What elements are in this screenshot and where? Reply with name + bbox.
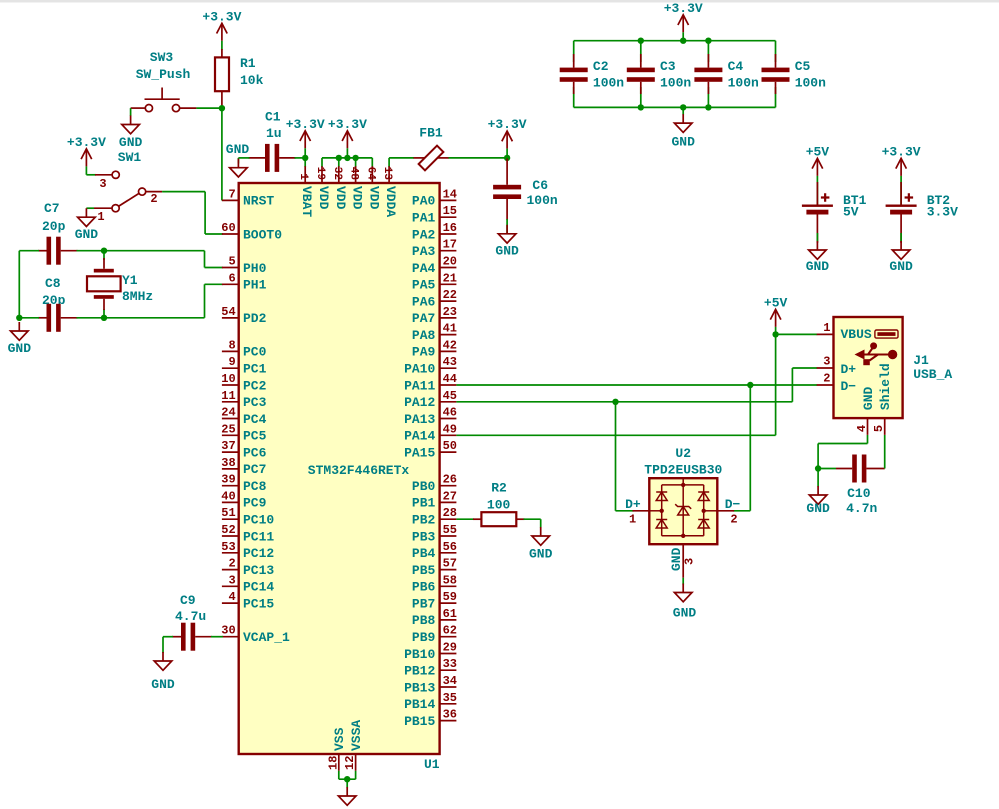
wire PA12 riser: [791, 368, 793, 402]
svg-text:3: 3: [99, 177, 106, 191]
wire PH0 wire h2: [205, 267, 223, 269]
pin 38 PC7 (U1 left): [221, 456, 266, 477]
ground GND at C1: [230, 159, 248, 177]
svg-text:PC0: PC0: [243, 345, 267, 360]
node junction VSS/VSSA: [344, 776, 350, 782]
wire R2 right wire: [524, 518, 541, 520]
power symbol PWR +3.3V at BT2: [896, 158, 907, 176]
pin 52 PC11 (U1 left): [221, 523, 274, 544]
pin 4 PC15 (U1 left): [222, 590, 275, 611]
U2 internal node right: [702, 509, 706, 513]
svg-text:38: 38: [221, 456, 235, 470]
crystal Y1: [87, 258, 121, 310]
svg-text:100n: 100n: [660, 76, 691, 91]
pin 60 BOOT0 (U1 left): [221, 221, 282, 242]
diode D-left-lower (U2): [656, 519, 667, 521]
pin 62 PB9 (U1 right): [412, 624, 457, 645]
wire VSSA down: [355, 771, 357, 779]
pin 3 D+ (J1): [817, 354, 857, 377]
wire C4 bottom drop: [707, 87, 709, 107]
wire C1 right wire: [295, 157, 306, 159]
svg-text:C4: C4: [728, 59, 744, 74]
pin 50 PA15 (U1 right): [404, 439, 457, 460]
pin 17 PA3 (U1 right): [412, 238, 457, 259]
svg-text:15: 15: [443, 204, 457, 218]
pin 34 PB13 (U1 right): [404, 674, 457, 695]
svg-text:PB0: PB0: [412, 479, 436, 494]
wire +3.3V to R1: [221, 41, 223, 50]
svg-text:50: 50: [443, 439, 457, 453]
pin 1 VBAT (U1 top): [297, 166, 314, 217]
pin 7 NRST (U1 left): [222, 187, 275, 208]
wire C2 bottom drop: [573, 87, 575, 107]
power symbol PWR01 +3.3V above R1: [217, 23, 228, 41]
svg-text:BOOT0: BOOT0: [243, 227, 282, 242]
svg-text:PC13: PC13: [243, 563, 274, 578]
wire PA12 wire h: [456, 401, 792, 403]
svg-text:GND: GND: [861, 386, 876, 410]
pin 28 PB2 (U1 right): [412, 506, 457, 527]
pin 22 PA6 (U1 right): [412, 288, 457, 309]
wire U2 pin3 wire: [682, 578, 684, 585]
svg-text:D+: D+: [841, 362, 857, 377]
svg-text:NRST: NRST: [243, 194, 274, 209]
svg-text:R1: R1: [240, 56, 256, 71]
node junction top rail x=640.8: [638, 38, 644, 44]
svg-text:11: 11: [221, 389, 235, 403]
pin 35 PB14 (U1 right): [404, 691, 457, 712]
capacitor C4: [694, 54, 722, 94]
wire SW1 pin1 to GND: [86, 207, 94, 209]
svg-text:+3.3V: +3.3V: [202, 9, 241, 24]
pin 11 PC3 (U1 left): [221, 389, 266, 410]
svg-text:100n: 100n: [593, 76, 624, 91]
svg-text:GND: GND: [151, 677, 175, 692]
pin 16 PA2 (U1 right): [412, 221, 457, 242]
svg-text:5: 5: [228, 255, 235, 269]
USB receptacle icon (J1): [875, 330, 898, 338]
svg-text:26: 26: [443, 473, 457, 487]
node junction R1/SW3/NRST: [219, 105, 225, 111]
pin 1 D+ (U2): [625, 497, 649, 527]
pin 4 GND (J1): [855, 386, 876, 434]
pin 39 PC8 (U1 left): [221, 473, 266, 494]
wire VDDA to FB1: [389, 157, 414, 159]
wire +3.3V to SW1 pin3 corner v: [85, 166, 87, 174]
svg-text:22: 22: [443, 288, 457, 302]
svg-text:PB12: PB12: [404, 664, 435, 679]
pin 21 PA5 (U1 right): [412, 271, 457, 292]
svg-text:VDD: VDD: [366, 186, 381, 210]
svg-text:PB10: PB10: [404, 647, 435, 662]
wire C7 right wire: [77, 250, 105, 252]
svg-text:PC15: PC15: [243, 596, 274, 611]
pin 56 PB4 (U1 right): [412, 540, 457, 561]
pin 9 PC1 (U1 left): [222, 355, 267, 376]
node junction bottom rail x=708.4: [705, 104, 711, 110]
svg-text:2: 2: [730, 513, 737, 527]
wire D+ wire: [792, 367, 817, 369]
svg-text:64: 64: [364, 167, 376, 181]
svg-text:GND: GND: [671, 134, 695, 149]
node junction PA12/U2: [612, 399, 618, 405]
node junction bottom rail GND: [680, 104, 686, 110]
wire J1 pin4 drop: [817, 444, 819, 469]
wire SW1 pin2 wire v: [204, 192, 206, 234]
capacitor C8: [38, 304, 78, 332]
pin 40 PC9 (U1 left): [221, 489, 266, 510]
pin 54 PD2 (U1 left): [221, 305, 266, 326]
svg-text:PC5: PC5: [243, 429, 267, 444]
svg-text:PH0: PH0: [243, 261, 267, 276]
wire U2 pin2 riser: [749, 385, 751, 511]
wire BT2 bottom wire: [900, 233, 902, 242]
resistor R1: [215, 49, 229, 108]
wire U2 pin1 riser: [615, 402, 617, 511]
pin 48 VDD (U1 top): [348, 166, 365, 209]
wire C10 gnd drop: [817, 469, 819, 487]
svg-text:PA9: PA9: [412, 345, 436, 360]
pin 37 PC6 (U1 left): [221, 439, 266, 460]
svg-text:1: 1: [297, 173, 309, 180]
pin 43 PA10 (U1 right): [404, 355, 457, 376]
svg-text:PC11: PC11: [243, 529, 274, 544]
svg-text:+3.3V: +3.3V: [286, 117, 325, 132]
svg-text:PB5: PB5: [412, 563, 436, 578]
svg-text:VBUS: VBUS: [841, 327, 872, 342]
svg-text:PC2: PC2: [243, 378, 267, 393]
pin 42 PA9 (U1 right): [412, 338, 457, 359]
pin 1 VBUS (J1): [817, 321, 872, 342]
svg-text:C6: C6: [532, 178, 548, 193]
wire VDDA riser: [388, 158, 390, 167]
svg-text:PB8: PB8: [412, 613, 436, 628]
sheet border top edge: [0, 0, 999, 3]
svg-text:PC8: PC8: [243, 479, 267, 494]
wire J1 pin4 down: [867, 435, 869, 444]
ground GND at C6: [498, 225, 516, 243]
svg-text:53: 53: [221, 540, 235, 554]
pin 13 VDDA (U1 top): [381, 166, 398, 217]
svg-text:FB1: FB1: [419, 126, 443, 141]
wire +5V to VBUS: [775, 327, 777, 335]
svg-text:33: 33: [443, 657, 457, 671]
power symbol PWR03 +3.3V at VBAT: [300, 131, 311, 149]
svg-text:PA12: PA12: [404, 395, 435, 410]
wire C3 bottom drop: [640, 87, 642, 107]
pin 29 PB10 (U1 right): [404, 641, 457, 662]
ground GND at C10: [809, 486, 827, 504]
svg-text:D+: D+: [625, 497, 641, 512]
ground GND at crystal: [11, 322, 29, 340]
pin 5 Shield (J1): [872, 363, 893, 435]
svg-text:48: 48: [348, 167, 360, 181]
ground GND at R2: [532, 527, 550, 545]
pin 58 PB6 (U1 right): [412, 573, 457, 594]
node junction Y1 top: [101, 248, 107, 254]
node junction VDD48: [352, 155, 358, 161]
svg-text:60: 60: [221, 221, 235, 235]
svg-text:VDDA: VDDA: [383, 186, 398, 217]
U2 internal top rail: [662, 484, 704, 486]
svg-text:36: 36: [443, 708, 457, 722]
wire C6 to GND: [506, 219, 508, 234]
svg-text:PC14: PC14: [243, 580, 274, 595]
svg-text:39: 39: [221, 473, 235, 487]
svg-text:PB9: PB9: [412, 630, 436, 645]
ground GND at U2: [674, 584, 692, 602]
svg-text:40: 40: [221, 489, 235, 503]
capacitor C5: [762, 54, 790, 94]
svg-text:20p: 20p: [42, 293, 66, 308]
svg-text:54: 54: [221, 305, 235, 319]
svg-text:43: 43: [443, 355, 457, 369]
svg-text:GND: GND: [806, 501, 830, 516]
wire C9 corner down: [162, 637, 164, 653]
svg-text:VDD: VDD: [316, 186, 331, 210]
svg-text:VDD: VDD: [333, 186, 348, 210]
capacitor C6: [493, 159, 521, 221]
pin 2 PC13 (U1 left): [222, 557, 275, 578]
svg-text:Y1: Y1: [122, 273, 138, 288]
svg-text:PB4: PB4: [412, 546, 436, 561]
pin 12 VSSA (U1 bottom): [343, 720, 364, 771]
pin 51 PC10 (U1 left): [221, 506, 274, 527]
svg-text:4.7u: 4.7u: [175, 609, 206, 624]
svg-text:61: 61: [443, 607, 457, 621]
wire PH0 wire v: [204, 251, 206, 268]
svg-text:PA13: PA13: [404, 412, 435, 427]
svg-text:45: 45: [443, 389, 457, 403]
svg-text:GND: GND: [119, 135, 143, 150]
svg-text:GND: GND: [495, 243, 519, 258]
U2 internal bottom rail: [662, 535, 704, 537]
svg-text:23: 23: [443, 305, 457, 319]
svg-text:30: 30: [221, 624, 235, 638]
zener diode (U2): [675, 504, 691, 515]
wire PH1 wire h1: [104, 317, 205, 319]
wire Y1 top wire: [103, 251, 105, 260]
svg-text:PB6: PB6: [412, 580, 436, 595]
pin 14 PA0 (U1 right): [412, 187, 457, 208]
U2 internal node bottom: [681, 534, 685, 538]
U2 internal pin1 link: [649, 510, 661, 512]
svg-text:PB3: PB3: [412, 529, 436, 544]
svg-text:+5V: +5V: [806, 144, 830, 159]
svg-text:+3.3V: +3.3V: [664, 1, 703, 16]
U2 internal right branch: [703, 485, 705, 536]
node junction VDD32: [336, 155, 342, 161]
svg-text:PA10: PA10: [404, 362, 435, 377]
svg-text:PB7: PB7: [412, 596, 435, 611]
power symbol PWR06 +3.3V at cap bank: [678, 15, 689, 33]
wire PH0 wire h1: [104, 250, 205, 252]
pin 23 PA7 (U1 right): [412, 305, 457, 326]
svg-text:PC1: PC1: [243, 362, 267, 377]
node junction Y1 bottom: [101, 315, 107, 321]
pin 64 VDD (U1 top): [364, 166, 381, 209]
ferrite bead FB1: [414, 146, 449, 171]
node junction C8/GND: [16, 315, 22, 321]
wire +3.3V to top rail: [682, 32, 684, 40]
node junction +5V/VBUS: [772, 331, 778, 337]
svg-text:PC9: PC9: [243, 496, 267, 511]
svg-text:PC3: PC3: [243, 395, 267, 410]
wire bottom rail to GND: [682, 107, 684, 114]
pin 57 PB5 (U1 right): [412, 557, 457, 578]
U2 internal left branch: [661, 485, 663, 536]
svg-text:100n: 100n: [527, 193, 558, 208]
pin 6 PH1 (U1 left): [222, 271, 267, 292]
wire cap bank top rail: [574, 40, 776, 42]
ground GND at SW1: [78, 208, 96, 226]
svg-text:20: 20: [443, 255, 457, 269]
svg-text:6: 6: [228, 271, 235, 285]
wire VDD48 riser: [355, 158, 357, 167]
svg-text:20p: 20p: [42, 219, 66, 234]
svg-text:24: 24: [221, 406, 235, 420]
svg-text:12: 12: [343, 756, 357, 770]
wire C10 to Shield riser: [884, 435, 886, 469]
svg-text:58: 58: [443, 573, 457, 587]
pin 46 PA13 (U1 right): [404, 406, 457, 427]
svg-text:PC6: PC6: [243, 445, 267, 460]
svg-text:C8: C8: [45, 276, 61, 291]
svg-text:PA0: PA0: [412, 194, 436, 209]
svg-text:19: 19: [314, 167, 326, 180]
svg-text:28: 28: [443, 506, 457, 520]
svg-text:PA14: PA14: [404, 429, 435, 444]
svg-text:GND: GND: [8, 341, 32, 356]
ground GND at cap bank: [674, 114, 692, 132]
node junction bottom rail x=640.8: [638, 104, 644, 110]
svg-text:PA11: PA11: [404, 378, 435, 393]
wire +3.3V to VDD rail: [346, 148, 348, 158]
U2 internal pin2 link: [704, 510, 718, 512]
IC U2 TPD2EUSB30 body: [649, 478, 717, 544]
svg-text:42: 42: [443, 338, 457, 352]
svg-text:4.7n: 4.7n: [846, 501, 877, 516]
svg-text:SW3: SW3: [150, 50, 174, 65]
svg-text:17: 17: [443, 238, 457, 252]
svg-text:41: 41: [443, 322, 457, 336]
svg-text:51: 51: [221, 506, 235, 520]
svg-text:34: 34: [443, 674, 457, 688]
svg-text:27: 27: [443, 489, 457, 503]
wire VDD rail: [322, 157, 372, 159]
svg-text:J1: J1: [913, 353, 929, 368]
svg-text:10k: 10k: [240, 73, 264, 88]
capacitor C3: [627, 54, 655, 94]
svg-text:GND: GND: [673, 606, 697, 621]
svg-text:VSS: VSS: [332, 727, 347, 751]
power symbol PWR05 +3.3V at C6: [502, 131, 513, 149]
wire C3 top drop: [640, 41, 642, 62]
node junction PA11/U2: [747, 382, 753, 388]
wire BT1 top wire: [816, 176, 818, 205]
svg-text:C2: C2: [593, 59, 609, 74]
wire C10 left wire: [818, 468, 836, 470]
wire SW1 pin2 wire h: [162, 191, 205, 193]
svg-text:1: 1: [629, 513, 636, 527]
wire BOOT0 wire: [205, 233, 223, 235]
svg-text:21: 21: [443, 271, 457, 285]
diode D-left-upper (U2): [656, 491, 667, 493]
svg-text:VCAP_1: VCAP_1: [243, 630, 290, 645]
pin 44 PA11 (U1 right): [404, 372, 457, 393]
svg-text:GND: GND: [529, 547, 553, 562]
wire cap bank bottom rail: [574, 106, 776, 108]
wire VDD32 riser: [338, 158, 340, 167]
pin 36 PB15 (U1 right): [404, 708, 457, 729]
svg-text:25: 25: [221, 422, 235, 436]
wire VDD64 riser: [371, 158, 373, 167]
svg-text:+3.3V: +3.3V: [882, 144, 921, 159]
wire PH1 wire h2: [205, 283, 223, 285]
svg-text:2: 2: [823, 371, 830, 385]
svg-text:PA1: PA1: [412, 211, 436, 226]
wire PA14 wire h: [456, 434, 775, 436]
pin 19 VDD (U1 top): [314, 166, 331, 209]
wire C4 top drop: [707, 41, 709, 62]
svg-text:100n: 100n: [795, 76, 826, 91]
node junction C10/GND: [815, 465, 821, 471]
pin 61 PB8 (U1 right): [412, 607, 457, 628]
ground GND at BT1: [809, 241, 827, 259]
pin 18 VSS (U1 bottom): [326, 727, 347, 770]
ground GND at SW3: [122, 116, 140, 134]
wire left rail: [18, 251, 20, 318]
U2 internal node top: [681, 483, 685, 487]
wire C9 left wire: [163, 636, 173, 638]
svg-text:1: 1: [823, 321, 830, 335]
svg-text:16: 16: [443, 221, 457, 235]
pin 45 PA12 (U1 right): [404, 389, 457, 410]
svg-text:C1: C1: [265, 109, 281, 124]
svg-text:PA2: PA2: [412, 227, 436, 242]
svg-text:PB15: PB15: [404, 714, 435, 729]
pin 2 D- (U2): [717, 497, 740, 527]
wire VDD19 riser: [321, 158, 323, 167]
svg-text:2: 2: [228, 557, 235, 571]
svg-text:3.3V: 3.3V: [927, 205, 958, 220]
svg-text:PC7: PC7: [243, 462, 266, 477]
svg-text:+3.3V: +3.3V: [67, 135, 106, 150]
IC U1 STM32F446RETx body: [239, 183, 440, 754]
svg-text:49: 49: [443, 422, 457, 436]
svg-text:29: 29: [443, 641, 457, 655]
wire C5 top drop: [775, 41, 777, 62]
svg-text:13: 13: [381, 167, 393, 181]
svg-text:PB2: PB2: [412, 513, 436, 528]
battery BT2: [886, 182, 917, 243]
wire C8 right wire: [77, 317, 105, 319]
svg-text:32: 32: [331, 167, 343, 180]
wire SW3 pin1 down: [130, 108, 132, 116]
svg-text:PH1: PH1: [243, 278, 267, 293]
svg-text:TPD2EUSB30: TPD2EUSB30: [644, 462, 722, 477]
svg-text:100: 100: [487, 498, 511, 513]
svg-text:44: 44: [443, 372, 457, 386]
svg-text:PA6: PA6: [412, 294, 436, 309]
svg-text:C9: C9: [180, 593, 196, 608]
svg-text:VBAT: VBAT: [299, 186, 314, 217]
pin 15 PA1 (U1 right): [412, 204, 457, 225]
pin 32 VDD (U1 top): [331, 166, 348, 209]
wire FB1 to C6 junction: [449, 157, 508, 159]
svg-text:PB1: PB1: [412, 496, 436, 511]
svg-text:1u: 1u: [266, 126, 282, 141]
